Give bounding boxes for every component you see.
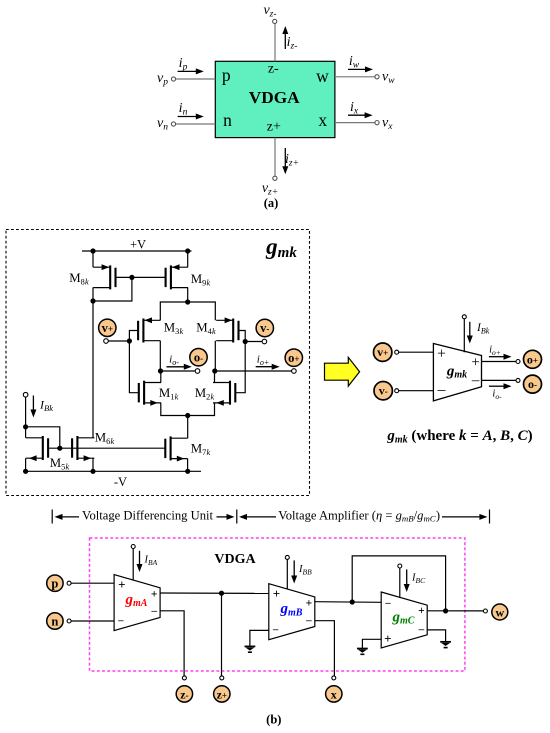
svg-text:M8 k: M8 k xyxy=(69,271,89,287)
svg-text:+: + xyxy=(471,355,479,371)
svg-text:–: – xyxy=(437,382,446,399)
svg-text:+: + xyxy=(384,631,391,646)
svg-text:o-: o- xyxy=(194,350,203,364)
svg-text:vp: vp xyxy=(157,71,168,88)
svg-text:+: + xyxy=(273,586,280,601)
svg-text:IBB: IBB xyxy=(298,564,312,577)
svg-text:VDGA: VDGA xyxy=(214,552,256,567)
svg-text:v+: v+ xyxy=(377,345,388,359)
svg-text:vx: vx xyxy=(382,115,393,132)
svg-text:M4 k: M4 k xyxy=(196,321,216,337)
svg-text:-V: -V xyxy=(114,475,127,489)
svg-text:io-: io- xyxy=(492,389,502,402)
svg-text:M9 k: M9 k xyxy=(191,272,211,288)
svg-text:x: x xyxy=(331,687,337,701)
svg-text:vw: vw xyxy=(382,70,395,87)
svg-text:M6 k: M6 k xyxy=(95,431,115,447)
svg-text:p: p xyxy=(51,577,58,591)
svg-text:o+: o+ xyxy=(527,352,538,366)
svg-text:(b): (b) xyxy=(266,713,281,727)
svg-text:z-: z- xyxy=(180,687,188,701)
svg-text:iz-: iz- xyxy=(287,35,298,52)
svg-text:M2 k: M2 k xyxy=(195,386,215,402)
svg-text:z+: z+ xyxy=(217,687,227,701)
svg-text:+: + xyxy=(418,605,425,617)
svg-text:M7 k: M7 k xyxy=(191,442,211,458)
svg-text:M5 k: M5 k xyxy=(50,456,70,472)
svg-text:ip: ip xyxy=(179,56,188,73)
svg-text:–: – xyxy=(117,615,124,626)
svg-text:M1 k: M1 k xyxy=(159,386,179,402)
svg-text:p: p xyxy=(222,65,231,85)
svg-text:Voltage Differencing Unit: Voltage Differencing Unit xyxy=(82,509,214,523)
svg-text:vn: vn xyxy=(157,116,168,133)
svg-text:in: in xyxy=(179,101,188,118)
svg-text:x: x xyxy=(318,110,327,130)
svg-text:n: n xyxy=(51,614,58,628)
svg-text:+: + xyxy=(306,598,313,610)
svg-text:io+: io+ xyxy=(489,345,501,358)
svg-text:ix: ix xyxy=(350,100,359,117)
svg-text:–: – xyxy=(150,605,157,617)
svg-text:–: – xyxy=(305,614,312,626)
svg-text:w: w xyxy=(495,605,504,619)
svg-text:iw: iw xyxy=(349,54,360,71)
svg-text:+V: +V xyxy=(130,238,146,252)
svg-text:iz+: iz+ xyxy=(285,152,299,169)
svg-text:io+: io+ xyxy=(257,354,269,368)
svg-text:IBk: IBk xyxy=(39,398,53,414)
svg-text:gmk: gmk xyxy=(265,234,297,261)
svg-text:+: + xyxy=(437,345,446,362)
svg-text:VDGA: VDGA xyxy=(249,88,300,107)
svg-text:IBC: IBC xyxy=(411,573,426,586)
svg-text:z-: z- xyxy=(268,61,279,76)
svg-text:–: – xyxy=(272,625,279,636)
svg-text:IBA: IBA xyxy=(144,555,158,568)
svg-text:vz-: vz- xyxy=(263,3,276,20)
svg-text:–: – xyxy=(384,598,391,609)
svg-text:Voltage Amplifier (η = gmB/gmC: Voltage Amplifier (η = gmB/gmC ) xyxy=(278,509,440,524)
svg-text:+: + xyxy=(118,577,125,592)
svg-text:n: n xyxy=(223,110,232,130)
svg-text:z+: z+ xyxy=(267,120,281,135)
svg-text:gmk (where k = A, B, C): gmk (where k = A, B, C) xyxy=(386,428,532,446)
svg-text:IBk: IBk xyxy=(476,322,490,336)
svg-text:+: + xyxy=(151,588,158,600)
svg-text:io-: io- xyxy=(169,354,179,368)
svg-text:–: – xyxy=(418,624,425,636)
svg-text:o-: o- xyxy=(528,377,537,391)
svg-text:(a): (a) xyxy=(264,196,279,210)
svg-text:–: – xyxy=(471,372,480,388)
svg-text:v-: v- xyxy=(260,321,269,335)
svg-text:o+: o+ xyxy=(288,351,299,365)
svg-text:M3 k: M3 k xyxy=(164,321,184,337)
svg-text:v-: v- xyxy=(379,384,388,398)
svg-text:w: w xyxy=(316,66,329,86)
svg-text:v+: v+ xyxy=(102,321,113,335)
